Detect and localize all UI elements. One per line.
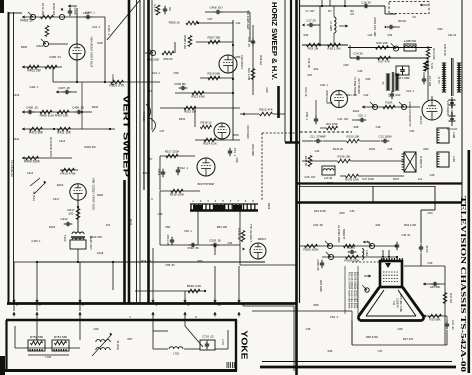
- svg-text:C19 .05: C19 .05: [307, 58, 311, 68]
- wire elbow: [194, 108, 196, 127]
- svg-text:C51 .1: C51 .1: [233, 148, 237, 157]
- svg-text:.47: .47: [387, 93, 391, 97]
- svg-text:R55: R55: [198, 259, 203, 263]
- wire HS1: [284, 0, 286, 142]
- label T50 HV RECT: [249, 224, 253, 242]
- capacitor C302 .05: [316, 260, 324, 271]
- svg-text:R16 10K: R16 10K: [376, 41, 387, 45]
- resistor R518 100K: [160, 189, 200, 196]
- svg-text:L703: L703: [45, 355, 52, 359]
- arrow J1: [22, 15, 25, 18]
- svg-text:R262 100K: R262 100K: [303, 248, 318, 252]
- svg-text:R 8.2K 1W: R 8.2K 1W: [237, 228, 241, 241]
- capacitor C12 150: [360, 135, 392, 144]
- label scatter m2: [13, 93, 20, 141]
- svg-text:R401: R401: [37, 44, 44, 48]
- svg-text:R18 1.5M: R18 1.5M: [327, 47, 341, 51]
- bus bar jog: [285, 141, 299, 143]
- svg-text:C701 .02: C701 .02: [202, 335, 214, 339]
- label scatter m6: [163, 57, 178, 75]
- svg-text:C30: C30: [428, 261, 433, 265]
- svg-text:R516: R516: [179, 117, 186, 121]
- pot R58: [147, 48, 160, 62]
- svg-text:R525: R525: [143, 171, 150, 175]
- label scatter a11: [362, 177, 400, 181]
- arrow in dashed box: [420, 4, 428, 7]
- label scatter h1: [305, 9, 354, 13]
- coil L10B 500: [404, 39, 416, 51]
- wire x78 down: [77, 200, 79, 232]
- wire crt bottom rail: [352, 330, 447, 345]
- svg-text:40 PF: 40 PF: [425, 245, 429, 253]
- label scatter c2: [166, 225, 193, 233]
- pot R1: [391, 43, 399, 51]
- label TELEVISION CHASSIS TS-542A-00: [459, 196, 467, 373]
- label scatter a6: [338, 117, 349, 121]
- svg-text:C25: C25: [388, 147, 393, 151]
- svg-text:C31 30: C31 30: [347, 246, 356, 250]
- svg-text:R511 6.8K: R511 6.8K: [191, 95, 205, 99]
- svg-text:9: 9: [195, 315, 197, 319]
- coil L44UMH: [329, 17, 348, 33]
- svg-text:C14 30: C14 30: [353, 52, 363, 56]
- arrow row1: [363, 241, 370, 244]
- svg-text:V10 6DQ6A: V10 6DQ6A: [446, 100, 450, 115]
- svg-text:R751 560: R751 560: [54, 335, 68, 339]
- svg-text:C46: C46: [358, 69, 363, 73]
- bus bar VS1: [123, 180, 126, 303]
- yoke wire left: [15, 314, 80, 348]
- svg-text:L14: L14: [418, 177, 423, 181]
- label bright: [337, 225, 346, 243]
- resistor R135 5K vertical: [304, 156, 312, 167]
- svg-text:V8B 12DQ7 VERT OSC: V8B 12DQ7 VERT OSC: [92, 178, 96, 211]
- svg-text:R130 10K: R130 10K: [347, 135, 360, 139]
- svg-text:C30 30K: C30 30K: [430, 285, 441, 289]
- svg-text:R419: R419: [49, 225, 56, 229]
- resistor R413 30K: [29, 127, 44, 134]
- resistor R510 56K: [200, 72, 233, 80]
- capacitor C47: [387, 91, 394, 100]
- svg-text:R131 2K: R131 2K: [333, 147, 344, 151]
- svg-text:OUT TRANS: OUT TRANS: [357, 78, 361, 94]
- dashed row: [300, 131, 352, 133]
- svg-text:C503 .36: C503 .36: [209, 239, 221, 243]
- resistor R407: [57, 110, 69, 114]
- label scatter a4: [304, 87, 308, 96]
- svg-text:L13 40: L13 40: [324, 176, 333, 180]
- right border thin: [461, 0, 463, 202]
- svg-text:R66 470K: R66 470K: [366, 335, 378, 339]
- label scatter f1: [129, 315, 197, 319]
- svg-text:R6: R6: [350, 9, 354, 13]
- label scatter d6: [97, 193, 111, 227]
- label bootstrap: [198, 182, 215, 186]
- label scatter h2: [398, 15, 416, 23]
- wire rail y82: [53, 60, 160, 129]
- svg-text:R526: R526: [267, 203, 271, 210]
- svg-text:PICTURE TUBE: PICTURE TUBE: [399, 294, 402, 312]
- wire under flyback row: [300, 186, 435, 188]
- svg-text:R26: R26: [328, 349, 333, 353]
- yoke module R751: [52, 335, 69, 351]
- svg-text:C29: C29: [430, 173, 435, 177]
- wire diag top: [107, 0, 140, 40]
- label scatter m7: [143, 157, 153, 175]
- label scatter c3: [217, 225, 233, 245]
- label R406 2K: [111, 74, 115, 85]
- svg-text:14: 14: [217, 303, 221, 307]
- wire x80 drop: [79, 262, 81, 311]
- tube V8B vert osc: [70, 184, 86, 200]
- svg-text:R23 270K: R23 270K: [314, 209, 326, 213]
- capacitor C408b: [205, 6, 250, 15]
- wire crt left drop: [351, 321, 353, 346]
- svg-text:R60: R60: [328, 101, 333, 105]
- resistor R50B vertical: [183, 35, 192, 49]
- arrow crt r1: [423, 282, 445, 285]
- capacitor box C10: [396, 66, 410, 80]
- wire plate: [76, 8, 78, 44]
- tube V9B top: [214, 123, 230, 139]
- label C15 info: [373, 17, 377, 37]
- main box bottom bar: [7, 302, 296, 305]
- svg-text:C43: C43: [368, 33, 373, 37]
- capacitor C14 30: [353, 52, 363, 61]
- yoke box top bar: [6, 319, 237, 322]
- wire x185 drop: [184, 291, 186, 302]
- wire x432 up: [431, 96, 433, 100]
- svg-text:C36: C36: [306, 327, 311, 331]
- wire grid: [49, 43, 68, 45]
- wire x153 drop: [152, 248, 154, 302]
- label scatter m11: [410, 129, 429, 151]
- svg-text:R25 100K: R25 100K: [319, 280, 323, 292]
- svg-text:R8 1M: R8 1M: [398, 19, 406, 23]
- resistor R514 8.2K: [195, 138, 240, 145]
- wire hv lead: [421, 186, 435, 243]
- spark gap B: [447, 112, 458, 131]
- capacitor C17 25: [302, 19, 320, 28]
- svg-text:C44 .1: C44 .1: [152, 71, 160, 75]
- label L50 horiz osc: [246, 125, 255, 156]
- arrow J2: [68, 4, 77, 7]
- svg-text:5.3K: 5.3K: [430, 63, 434, 69]
- svg-text:R133 5.6K: R133 5.6K: [345, 178, 359, 182]
- capacitor C513: [157, 169, 165, 178]
- svg-text:T50 HV RECT: T50 HV RECT: [249, 224, 253, 242]
- svg-text:R411 10K: R411 10K: [57, 131, 72, 135]
- resistor R136 10K: [302, 155, 404, 163]
- svg-text:6: 6: [230, 199, 232, 203]
- svg-text:44 COLD: 44 COLD: [447, 128, 458, 131]
- wire x373 drop: [372, 186, 374, 202]
- svg-text:C57: C57: [148, 157, 153, 161]
- svg-text:R752 560: R752 560: [30, 335, 44, 339]
- svg-text:R402 1K: R402 1K: [20, 19, 34, 23]
- capacitor C1: [163, 6, 172, 15]
- bus bar VS6: [147, 0, 150, 303]
- svg-text:2: 2: [200, 199, 202, 203]
- svg-text:C417: C417: [53, 197, 60, 201]
- svg-text:FOCUS STRAP on pin tube base: FOCUS STRAP on pin tube base: [350, 272, 353, 309]
- focus note text: [345, 266, 359, 314]
- capacitor C30 40pf label: [428, 261, 433, 265]
- svg-text:HORIZ SWEEP & H.V.: HORIZ SWEEP & H.V.: [270, 2, 277, 80]
- svg-text:5: 5: [222, 199, 224, 203]
- svg-text:R49 1K: R49 1K: [419, 116, 423, 125]
- svg-text:R12 1K: R12 1K: [304, 87, 308, 96]
- svg-text:R518 100K: R518 100K: [170, 193, 185, 197]
- wire cathode rail: [22, 65, 62, 68]
- label R403 2W: [27, 69, 40, 73]
- wire crt right rail: [404, 266, 445, 345]
- flyback core: [437, 58, 453, 96]
- label C208: [49, 55, 61, 59]
- svg-text:L701: L701: [221, 339, 225, 345]
- svg-text:R409 200K: R409 200K: [24, 160, 41, 164]
- wire rail y58: [350, 57, 428, 59]
- resistor R519 12: [200, 121, 211, 129]
- capacitor C15: [384, 25, 400, 29]
- svg-text:C52 .1: C52 .1: [184, 229, 192, 233]
- crt box top bar: [296, 201, 462, 204]
- svg-text:C405: C405: [73, 8, 77, 15]
- svg-text:3: 3: [207, 199, 209, 203]
- label V8B 12DQ7: [92, 178, 96, 211]
- label scatter e3: [319, 280, 323, 292]
- svg-text:V11: V11: [392, 301, 396, 306]
- wire VS3: [136, 0, 138, 303]
- svg-text:C63: C63: [428, 211, 433, 215]
- resistor R33 56K: [429, 314, 442, 321]
- wire rail y245: [160, 191, 240, 245]
- svg-text:6: 6: [151, 197, 153, 201]
- svg-text:44 (NR): 44 (NR): [116, 340, 120, 350]
- pot bright A: [325, 241, 333, 249]
- svg-text:R46: R46: [366, 77, 371, 81]
- label scatter h7: [358, 69, 371, 81]
- svg-text:C9: C9: [412, 15, 416, 19]
- label scatter d5: [31, 225, 55, 243]
- svg-text:C404 .1: C404 .1: [85, 11, 95, 15]
- svg-text:C22: C22: [364, 93, 369, 97]
- svg-text:R512 47K: R512 47K: [259, 108, 273, 112]
- label R412A 470K: [49, 137, 53, 157]
- svg-text:L702: L702: [173, 352, 180, 356]
- svg-text:C414: C414: [27, 171, 34, 175]
- crt box bottom bar: [260, 366, 456, 369]
- label scatter a8: [315, 147, 344, 153]
- dashed pix: [352, 261, 390, 263]
- svg-text:C60: C60: [344, 63, 349, 67]
- svg-text:R416: R416: [92, 105, 99, 109]
- svg-text:R415 470K: R415 470K: [60, 172, 75, 176]
- wire brightness rail: [300, 245, 397, 247]
- resistor R133 5.6K: [340, 174, 404, 181]
- tube V10 horiz amp: [422, 100, 442, 120]
- svg-text:R413 30K: R413 30K: [29, 131, 44, 135]
- left border label TS-542A-00: [10, 159, 14, 176]
- label V9A 6CG7: [240, 55, 244, 70]
- wire top rail right: [300, 6, 396, 14]
- svg-text:C35 .01: C35 .01: [401, 233, 411, 237]
- wire x428 drop: [427, 58, 429, 100]
- connector pin14: [213, 299, 221, 317]
- svg-text:C49: C49: [376, 125, 381, 129]
- arrow into neck: [364, 275, 371, 278]
- svg-text:R59: R59: [236, 55, 241, 59]
- svg-text:C408 .DO: C408 .DO: [210, 6, 224, 10]
- label scatter m16: [94, 327, 133, 341]
- svg-text:C12 150M: C12 150M: [379, 135, 393, 139]
- wire rail y158: [22, 156, 72, 159]
- resistor R501 3.7K: [110, 80, 126, 87]
- svg-text:R11: R11: [314, 67, 319, 71]
- svg-text:L50 HORIZ: L50 HORIZ: [246, 125, 250, 139]
- svg-text:R517 220K: R517 220K: [165, 150, 180, 154]
- svg-text:44 HV: 44 HV: [437, 76, 441, 84]
- label scatter a3: [328, 9, 354, 16]
- svg-text:T1 35W HORIZ: T1 35W HORIZ: [353, 77, 357, 96]
- label scatter c5: [198, 259, 203, 263]
- connector pin1: [0, 0, 1, 1]
- resistor R505 1K: [169, 21, 233, 25]
- svg-text:R24: R24: [376, 223, 381, 227]
- svg-text:R33 56K: R33 56K: [430, 318, 441, 322]
- svg-text:R420: R420: [97, 193, 104, 197]
- pot bright B: [367, 241, 375, 249]
- label scatter m18: [259, 55, 269, 93]
- switch S1 contacts: [30, 178, 46, 201]
- ion trap pot: [362, 285, 369, 292]
- label scatter m14: [314, 303, 339, 319]
- svg-text:R54 1M: R54 1M: [141, 259, 151, 263]
- svg-text:C410 .1: C410 .1: [107, 25, 111, 35]
- svg-text:R15A: R15A: [385, 101, 392, 105]
- resistor R15A: [383, 101, 395, 109]
- label scatter a1: [307, 58, 311, 68]
- svg-text:R7: R7: [328, 9, 332, 13]
- left border outer bar: [8, 12, 10, 303]
- connector pin13: [237, 299, 245, 317]
- label scatter m5: [129, 219, 133, 226]
- svg-text:C415 .1: C415 .1: [31, 239, 41, 243]
- wire x250 drop: [246, 11, 250, 42]
- label scatter e5: [378, 337, 414, 353]
- capacitor C51 .1: [228, 148, 237, 157]
- svg-text:C512 .1: C512 .1: [178, 166, 188, 170]
- wire VS7: [151, 0, 153, 130]
- resistor R415 470K: [60, 168, 78, 175]
- svg-text:R510 56K: R510 56K: [208, 72, 221, 76]
- label V9B 6CG7b: [325, 90, 329, 104]
- wire VS4: [139, 0, 141, 303]
- svg-text:C16 30: C16 30: [361, 1, 371, 5]
- label scatter e1: [314, 209, 355, 213]
- wire x113 drop: [112, 262, 114, 290]
- pot vert hold: [37, 39, 49, 48]
- wire rail y45: [302, 44, 348, 46]
- svg-text:TS-542A-00: TS-542A-00: [10, 159, 14, 176]
- tube V1B3 hv rect: [243, 237, 267, 259]
- spark gap A: [449, 97, 456, 108]
- resistor R507 39K: [196, 36, 233, 44]
- svg-text:C302 .05: C302 .05: [316, 260, 320, 271]
- svg-text:44 UMH: 44 UMH: [329, 21, 333, 31]
- label scatter m9: [305, 101, 333, 120]
- svg-text:R5: R5: [168, 7, 172, 11]
- svg-text:44 (NC): 44 (NC): [32, 191, 36, 201]
- yoke box bottom bar: [3, 369, 237, 372]
- svg-text:R19 1M: R19 1M: [308, 47, 319, 51]
- svg-text:C511 .05: C511 .05: [166, 235, 170, 246]
- wire yoke-crt link top: [243, 305, 294, 307]
- arrow crt r2: [423, 314, 447, 317]
- connector pin3: [151, 299, 157, 317]
- capacitor C13 .25: [247, 37, 255, 47]
- svg-text:R423 47K: R423 47K: [90, 235, 103, 239]
- svg-text:L16A: L16A: [365, 250, 369, 256]
- wire x215 drop: [214, 245, 216, 302]
- small part b1: [314, 100, 318, 124]
- label scatter m10: [344, 63, 358, 97]
- svg-text:R17 47K: R17 47K: [378, 60, 389, 64]
- label VERT SWEEP: [122, 95, 131, 178]
- svg-text:C509 M0: C509 M0: [174, 82, 186, 86]
- capacitor C30 30K: [430, 282, 441, 289]
- svg-text:R45 270K: R45 270K: [443, 44, 447, 56]
- capacitor 40PF: [419, 244, 429, 266]
- svg-text:C412: C412: [61, 217, 68, 221]
- svg-text:R48: R48: [98, 41, 103, 45]
- resistor R8.2K vertical: [237, 228, 245, 242]
- resistor R303: [344, 244, 355, 248]
- label R404 1M: [52, 3, 56, 15]
- svg-text:C13 .25: C13 .25: [247, 37, 251, 47]
- svg-text:R514 8.2K: R514 8.2K: [203, 142, 217, 146]
- svg-text:C59 .1: C59 .1: [305, 112, 309, 120]
- yoke coil L704: [92, 333, 120, 356]
- svg-text:R34 1M: R34 1M: [449, 293, 453, 303]
- capacitor C34 .01: [445, 316, 455, 330]
- svg-text:1: 1: [192, 199, 194, 203]
- contrast row: [362, 105, 420, 108]
- svg-text:VERT SWEEP: VERT SWEEP: [122, 95, 131, 178]
- transformer T1 winding A: [381, 72, 399, 92]
- resistor R18 1.5M: [327, 43, 341, 50]
- tube V9B b: [331, 91, 348, 108]
- capacitor C405: [68, 8, 77, 17]
- svg-text:R424: R424: [129, 219, 133, 226]
- pot contrast B: [399, 102, 407, 110]
- svg-text:R61 10K: R61 10K: [347, 93, 358, 97]
- label T1 horiz out: [353, 77, 361, 96]
- svg-text:R405 8.2K R407 15K: R405 8.2K R407 15K: [40, 114, 69, 118]
- wire under strip: [198, 211, 240, 265]
- label scatter m8: [235, 158, 271, 210]
- svg-text:R53 10K: R53 10K: [217, 225, 228, 229]
- bus bar flyback row: [296, 182, 462, 184]
- resistor R405: [40, 110, 52, 114]
- svg-text:7: 7: [237, 199, 239, 203]
- svg-text:C409 .25: C409 .25: [72, 106, 84, 110]
- svg-text:1B3GT: 1B3GT: [258, 237, 267, 241]
- svg-text:R132: R132: [369, 147, 376, 151]
- svg-text:C411 .1: C411 .1: [30, 85, 39, 89]
- resistor R522 4.5K: [135, 284, 206, 293]
- label scatter m3: [53, 183, 64, 201]
